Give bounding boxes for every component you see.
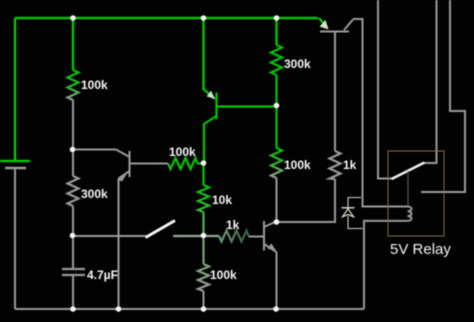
battery B1 negative plate <box>5 167 26 170</box>
node B junction dot <box>274 103 280 109</box>
wire: rail to Q4 emitter diagonal <box>319 18 327 27</box>
junction dot Q3 emitter/ground <box>273 306 279 312</box>
wire: R2 bottom to node C <box>72 206 74 236</box>
wire: Q1 emitter to ground <box>118 179 120 310</box>
resistor R8 100k <box>271 148 282 178</box>
wire: rail to Q2 emitter <box>202 18 204 90</box>
junction dot C1/ground <box>70 306 76 312</box>
wire: node C to capacitor top <box>72 236 74 269</box>
wire: ground bottom rail <box>15 308 364 310</box>
Q1 emitter arrow <box>118 174 128 182</box>
wire: relay NC contact from top edge <box>421 0 465 192</box>
transistor Q3 NPN <box>264 221 277 252</box>
relay coil L1 <box>408 207 412 221</box>
Q3 emitter arrow <box>268 243 276 250</box>
svg-text:100k: 100k <box>210 268 237 282</box>
wire: R1 bottom to node A <box>72 100 74 149</box>
Q2 emitter arrow <box>207 91 215 99</box>
wire: R3 right to node D <box>198 162 204 164</box>
wire: Q4 collector to relay coil top <box>353 19 408 207</box>
junction dot Q1 emitter/ground <box>116 306 122 312</box>
wire: R8 bottom to node E <box>276 178 278 222</box>
diode D1 flyback cathode bar <box>342 207 355 209</box>
junction dot rail/Q2 <box>201 15 207 21</box>
wire: node X to R5 left <box>204 235 220 237</box>
node E junction dot <box>274 219 280 225</box>
resistor R1 100k <box>68 70 79 100</box>
wire: Q3 emitter to ground rail <box>276 252 278 309</box>
wire: battery - to ground rail <box>14 169 16 309</box>
relay K1 actuation link <box>407 171 409 206</box>
node A junction dot <box>70 147 76 153</box>
svg-text:100k: 100k <box>169 145 196 159</box>
wire: switch right contact to node X <box>173 235 204 237</box>
wire: node E right then up to R9 bottom <box>277 179 336 222</box>
wire: R6 bottom to ground rail <box>203 291 205 309</box>
resistor R7 300k <box>271 45 282 75</box>
svg-text:4.7µF: 4.7µF <box>87 268 118 282</box>
transistor Q2 PNP <box>204 89 277 124</box>
battery B1 positive plate <box>0 160 30 163</box>
wire: capacitor bottom to ground rail <box>72 276 74 309</box>
wire: Q2 collector down to node D <box>203 123 205 163</box>
wire: node X down to R6 top <box>202 236 204 265</box>
resistor R3 100k (horizontal, Q1 base) <box>168 158 198 169</box>
resistor R5 1k (horizontal) <box>219 231 249 242</box>
svg-text:100k: 100k <box>81 78 108 92</box>
wire: R4 bottom to node X <box>202 212 204 236</box>
junction dot rail/R1 <box>70 15 76 21</box>
wire: D1 cathode bracket to coil top <box>348 198 361 208</box>
wire: R7 bottom to node B <box>275 75 277 105</box>
wire: rail to R7 top <box>275 18 277 45</box>
wire: left supply drop to battery + <box>14 18 16 160</box>
capacitor C1 bottom plate <box>62 274 85 276</box>
resistor R4 10k <box>198 185 209 212</box>
node C junction dot <box>70 233 76 239</box>
wire: D1 anode bracket to coil bottom <box>348 216 363 229</box>
wire: relay pole from top edge <box>378 0 392 179</box>
wire: rail to R1 top <box>72 18 74 70</box>
wire: top supply rail <box>15 17 318 19</box>
wire: node A down to R2 top <box>72 150 74 177</box>
wire: R5 right to Q3 base <box>249 236 265 238</box>
junction dot rail/R7 <box>274 15 280 21</box>
capacitor C1 top plate <box>62 268 85 270</box>
Q4 emitter arrow <box>320 20 329 30</box>
svg-text:1k: 1k <box>226 218 240 232</box>
wire: relay coil bottom to ground rail <box>364 221 408 309</box>
wire: node D to R4 top <box>202 163 204 185</box>
transistor Q1 NPN <box>116 150 168 179</box>
svg-text:5V Relay: 5V Relay <box>390 241 451 258</box>
wire: node B to R8 top <box>275 106 277 149</box>
wire: R9 top to Q4 base <box>334 32 336 151</box>
resistor R6 100k <box>198 264 209 291</box>
node X junction dot <box>201 233 207 239</box>
svg-text:1k: 1k <box>343 158 357 172</box>
svg-text:100k: 100k <box>284 158 311 172</box>
diode D1 triangle <box>343 209 354 217</box>
svg-text:300k: 300k <box>284 57 311 71</box>
svg-text:300k: 300k <box>81 187 108 201</box>
relay K1 box <box>388 151 444 236</box>
node D junction dot <box>201 160 207 166</box>
resistor R2 300k <box>68 176 79 206</box>
wire: node C to switch left contact <box>73 235 146 237</box>
junction dot R6/ground <box>201 306 207 312</box>
resistor R9 1k <box>330 151 341 179</box>
wire: relay NO contact from top edge <box>423 0 437 163</box>
switch S1 blade (open) <box>146 221 176 238</box>
svg-text:10k: 10k <box>212 193 232 207</box>
transistor Q4 PNP <box>320 20 353 32</box>
relay K1 armature blade <box>392 163 425 180</box>
wire: node A to Q1 collector <box>73 149 117 151</box>
